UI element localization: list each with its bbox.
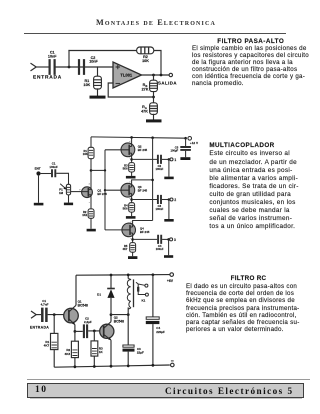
transistor Q1 BF245 xyxy=(82,187,93,198)
minus mark above 0V terminal xyxy=(171,360,174,362)
svg-text:10K: 10K xyxy=(142,59,149,63)
wire Q4 source to node xyxy=(132,233,134,243)
label C2 value xyxy=(84,317,92,325)
label Q1 type xyxy=(78,300,88,308)
ground below P1 xyxy=(64,203,73,206)
svg-text:BF 245: BF 245 xyxy=(138,148,148,152)
gate bus vertical wire xyxy=(104,150,106,230)
Q3 source junction dot xyxy=(130,198,133,201)
wire rail down to C4 xyxy=(152,275,154,317)
input terminal chevron (ENTRADA) xyxy=(31,311,36,318)
output terminal 1 xyxy=(170,158,173,161)
resistor R2 3K3 xyxy=(71,341,78,367)
wire C2 to terminal 1 xyxy=(162,158,169,160)
top supply rail xyxy=(91,137,186,138)
+12V supply terminal xyxy=(188,137,192,141)
wire Q2 collector up to node xyxy=(110,315,112,322)
resistor R2 (Q1 source) xyxy=(88,209,94,229)
node A junction dot xyxy=(68,66,71,69)
label R3 value xyxy=(123,163,128,170)
top supply rail xyxy=(76,274,170,277)
svg-text:220µF: 220µF xyxy=(156,330,165,334)
svg-text:BC548: BC548 xyxy=(78,303,88,307)
wire op-amp output to SALIDA xyxy=(142,74,169,76)
resistor RB 27K (vertical) xyxy=(150,75,158,103)
svg-text:SALIDA: SALIDA xyxy=(158,81,177,86)
svg-text:D1: D1 xyxy=(97,292,101,296)
wire input to C1 xyxy=(36,314,41,316)
wire collector node to coil branch xyxy=(111,314,128,316)
label C1 value xyxy=(41,299,49,307)
coil branch junction dot xyxy=(127,313,130,316)
svg-text:1M: 1M xyxy=(59,191,64,195)
ground below output 3 xyxy=(164,255,173,258)
pin letter specks Q4 xyxy=(130,222,132,240)
label P1 value xyxy=(59,188,64,195)
label R4 value xyxy=(123,204,128,211)
junction dot output 2 xyxy=(168,198,171,201)
svg-text:47K: 47K xyxy=(141,109,148,113)
resistor R1 4K7 xyxy=(51,333,58,367)
relay coil K1 xyxy=(127,275,133,315)
capacitor C3 100nF (output 2) xyxy=(158,195,161,204)
label R1 value xyxy=(83,79,90,87)
svg-text:3K3: 3K3 xyxy=(65,352,71,356)
label R1 value xyxy=(83,149,88,156)
svg-text:d: d xyxy=(129,181,131,183)
svg-text:1K: 1K xyxy=(99,350,104,354)
label R5 value xyxy=(122,244,127,251)
wire ENT down to ground xyxy=(38,176,40,203)
svg-text:+6V: +6V xyxy=(167,279,174,283)
svg-text:K1: K1 xyxy=(141,299,145,303)
wire down to R3 xyxy=(93,331,95,341)
label TL081 and op-amp pins xyxy=(120,73,133,78)
+6V supply terminal xyxy=(170,273,174,277)
label C3 value xyxy=(137,347,144,355)
feedback top rail wire xyxy=(69,51,161,76)
text block: MULTIACOPLADOR xyxy=(209,143,310,231)
feedback wire to inverting input xyxy=(108,83,153,97)
capacitor C1 10nF xyxy=(50,60,55,74)
svg-text:TL081: TL081 xyxy=(120,73,133,78)
transistor Q2 BF245 xyxy=(105,143,135,157)
resistor R4 (Q3 source) xyxy=(129,203,135,216)
label R2 value xyxy=(82,210,87,217)
wire Q3 source to node xyxy=(131,193,133,202)
wire output 3 to ground xyxy=(168,239,170,255)
label C5 value xyxy=(171,146,179,153)
svg-text:d: d xyxy=(89,183,91,185)
ground below C5 xyxy=(180,157,190,160)
wire output 2 to ground xyxy=(168,200,170,220)
output terminal 3 xyxy=(170,238,173,241)
svg-text:BF 245: BF 245 xyxy=(138,188,148,192)
svg-text:4,7nF: 4,7nF xyxy=(41,303,49,307)
svg-text:10nF: 10nF xyxy=(89,60,98,64)
capacitor C2 2,2uF xyxy=(84,324,87,338)
ENT input terminal dot xyxy=(36,171,40,175)
wire Q1 collector to top rail xyxy=(75,275,77,305)
junction dot at R2 drop xyxy=(160,74,163,77)
svg-text:BF 245: BF 245 xyxy=(140,230,150,234)
relay contact switch xyxy=(136,282,148,296)
op-amp pin polarity marks xyxy=(116,65,120,83)
svg-text:100µF: 100µF xyxy=(171,149,179,153)
wire C3 to terminal 2 xyxy=(162,199,169,201)
SALIDA output terminal xyxy=(169,73,172,76)
resistor R3 1K xyxy=(91,341,98,367)
bus junction dots xyxy=(104,169,106,191)
svg-text:1: 1 xyxy=(174,158,176,162)
right distribution rail xyxy=(152,138,154,221)
junction dot at RB top xyxy=(152,74,155,77)
svg-text:2,2µF: 2,2µF xyxy=(84,320,92,324)
svg-text:g: g xyxy=(79,189,81,191)
capacitor C1 100nF xyxy=(52,169,55,177)
svg-text:4K7: 4K7 xyxy=(44,344,50,348)
svg-text:1K2: 1K2 xyxy=(82,213,87,217)
wire output 1 xyxy=(132,158,157,160)
svg-text:2: 2 xyxy=(174,198,176,202)
pin letter specks Q3 xyxy=(129,181,131,200)
node: Q1 drain junction dot xyxy=(90,169,93,172)
op-amp U1 TL081 xyxy=(113,62,142,88)
potentiometer P1 1M xyxy=(60,184,70,195)
ground below output 1 xyxy=(164,177,173,180)
wire node to C2 xyxy=(75,330,83,332)
ground below R2 xyxy=(87,229,96,232)
wire P1 to ground xyxy=(68,195,70,203)
resistor R5 4K7 (Q4 source) xyxy=(130,243,136,257)
ground below R4 xyxy=(126,216,136,219)
svg-text:27K: 27K xyxy=(142,88,149,92)
rail junction dots xyxy=(110,273,155,276)
label Q2 type xyxy=(138,145,148,152)
wire Q3 drain to right rail xyxy=(132,180,153,187)
svg-text:4K7: 4K7 xyxy=(122,247,127,251)
svg-text:ENT: ENT xyxy=(35,167,41,171)
circuit 3 component labels xyxy=(30,279,174,356)
ground below R1 xyxy=(90,96,106,99)
footer thin rule xyxy=(27,379,310,380)
output terminal 2 xyxy=(170,198,173,201)
label R2 value xyxy=(65,348,71,356)
footer bar xyxy=(27,383,304,398)
footer page number 10 xyxy=(35,385,48,395)
resistor R3 (Q2 source) xyxy=(129,163,135,176)
svg-text:100nF: 100nF xyxy=(156,247,164,251)
svg-text:10nF: 10nF xyxy=(48,54,57,58)
wire Q1 drain up to node xyxy=(90,170,92,189)
capacitor C1 4,7nF xyxy=(42,308,46,322)
resistor RA 47K (vertical) xyxy=(150,103,158,120)
wire output 1 to ground xyxy=(168,159,170,176)
wire Q1 emitter down to node xyxy=(74,325,76,332)
svg-text:5K6: 5K6 xyxy=(123,207,128,211)
transistor Q3 BF245 xyxy=(105,183,135,197)
junction dot Q3 drain at rail xyxy=(151,179,154,182)
pin letter specks Q2 xyxy=(129,141,131,160)
feedback node junction dot xyxy=(152,96,155,99)
header rule xyxy=(24,33,286,35)
wire C2 to Q2 base xyxy=(88,330,104,332)
ground below ENT xyxy=(34,203,44,206)
svg-text:5K6: 5K6 xyxy=(123,167,128,171)
resistor R1 10K (drain load) xyxy=(88,137,94,171)
wire ENT to C1 xyxy=(41,173,52,175)
svg-text:ENTRADA: ENTRADA xyxy=(30,326,49,330)
wire C1 to P1 xyxy=(56,173,68,184)
wire node down to R2 xyxy=(74,331,76,341)
transistor Q1 BC548 xyxy=(64,305,79,325)
wire Q2 source to node xyxy=(131,153,133,163)
label C2 value xyxy=(89,56,98,64)
page header title xyxy=(0,18,316,27)
ground below output 2 xyxy=(164,219,173,222)
capacitor C2 100nF (output 1) xyxy=(158,155,161,164)
ground rail junction dots xyxy=(74,364,155,368)
label Q3 type xyxy=(138,185,148,192)
junction dot output 3 xyxy=(167,238,170,241)
svg-text:BC548: BC548 xyxy=(114,319,124,323)
collector node junction dot xyxy=(110,313,113,316)
footer book title xyxy=(0,386,294,396)
svg-text:ENTRADA: ENTRADA xyxy=(33,74,62,80)
label R2 value xyxy=(142,55,149,63)
wire node A up to feedback rail xyxy=(68,51,70,68)
circuit 1 component labels xyxy=(33,50,177,113)
transistor Q2 BC548 xyxy=(100,322,114,341)
wire output 3 xyxy=(133,238,158,240)
Q2 source junction dot xyxy=(130,158,133,161)
capacitor C4 220uF (electrolytic) xyxy=(146,317,160,365)
circuit 2 component labels xyxy=(35,141,199,251)
label Q2 type xyxy=(114,316,124,324)
wire node to gate bus xyxy=(91,169,105,171)
wire C1 to Q1 base xyxy=(48,314,69,316)
svg-text:10K: 10K xyxy=(83,83,90,87)
text block: FILTRO RC xyxy=(186,276,305,333)
ground below RA xyxy=(146,119,162,122)
svg-text:3: 3 xyxy=(174,238,176,242)
wire Q2 drain to rail xyxy=(131,137,133,146)
capacitor C3 22uF (electrolytic) xyxy=(123,315,135,366)
rail junction dots xyxy=(130,136,187,139)
svg-text:d: d xyxy=(129,141,131,143)
resistor R1 10K (vertical) xyxy=(94,67,102,96)
diode D1 xyxy=(107,275,115,315)
junction dot output 1 xyxy=(168,158,171,161)
wire Q2 emitter to ground rail xyxy=(110,340,112,366)
Q1 emitter junction dot xyxy=(74,330,77,333)
svg-text:+12 V: +12 V xyxy=(190,141,199,145)
input terminal chevron (ENTRADA) xyxy=(31,64,36,71)
capacitor C5 (supply decoupling) xyxy=(180,138,191,157)
label Q4 type xyxy=(140,227,150,234)
wire output 2 xyxy=(132,199,157,201)
svg-text:BF 245: BF 245 xyxy=(97,192,107,196)
label C1 value xyxy=(48,50,57,58)
transistor Q4 BF245 xyxy=(105,223,136,237)
svg-text:22µF: 22µF xyxy=(137,351,144,355)
svg-text:100nF: 100nF xyxy=(49,165,58,169)
label R1 value xyxy=(44,340,50,348)
label C1 value xyxy=(49,162,58,169)
wire C4 to terminal 3 xyxy=(162,238,169,240)
label RA value xyxy=(141,105,148,113)
wire down to R1 xyxy=(53,315,55,334)
0V terminal xyxy=(171,363,175,367)
footer bar shadow xyxy=(30,398,302,399)
capacitor C4 100nF (output 3) xyxy=(158,235,161,244)
capacitor C2 10nF xyxy=(79,60,84,74)
wire Q4 drain to right rail xyxy=(133,221,153,228)
ground below R5 xyxy=(128,256,137,259)
text block: FILTRO PASA-ALTO xyxy=(192,37,307,87)
ground below R3 xyxy=(126,176,136,179)
svg-text:10K: 10K xyxy=(83,152,88,156)
pin letter specks Q1 xyxy=(79,183,91,204)
junction dot at R1 xyxy=(53,313,56,316)
label R3 value xyxy=(99,347,104,355)
label C4 value xyxy=(156,244,164,251)
bottom ground rail xyxy=(54,365,170,367)
svg-text:100nF: 100nF xyxy=(156,207,164,211)
label Q1 type xyxy=(97,189,107,196)
label C2 value xyxy=(156,164,164,171)
wire C1 to op-amp input with node A xyxy=(56,66,113,68)
wire input to C1 xyxy=(36,66,48,68)
svg-text:s: s xyxy=(89,202,91,204)
label C3 value xyxy=(156,204,164,211)
wire P1 wiper to Q1 gate xyxy=(71,191,82,193)
label C4 value xyxy=(156,326,165,334)
label RB value xyxy=(142,83,149,91)
svg-text:100nF: 100nF xyxy=(156,167,164,171)
wire Q1 source down to R2 xyxy=(90,195,92,209)
junction dot at R3 xyxy=(93,330,96,333)
resistor R2 10K (horizontal) xyxy=(137,47,154,54)
Q4 source junction dot xyxy=(131,238,134,241)
